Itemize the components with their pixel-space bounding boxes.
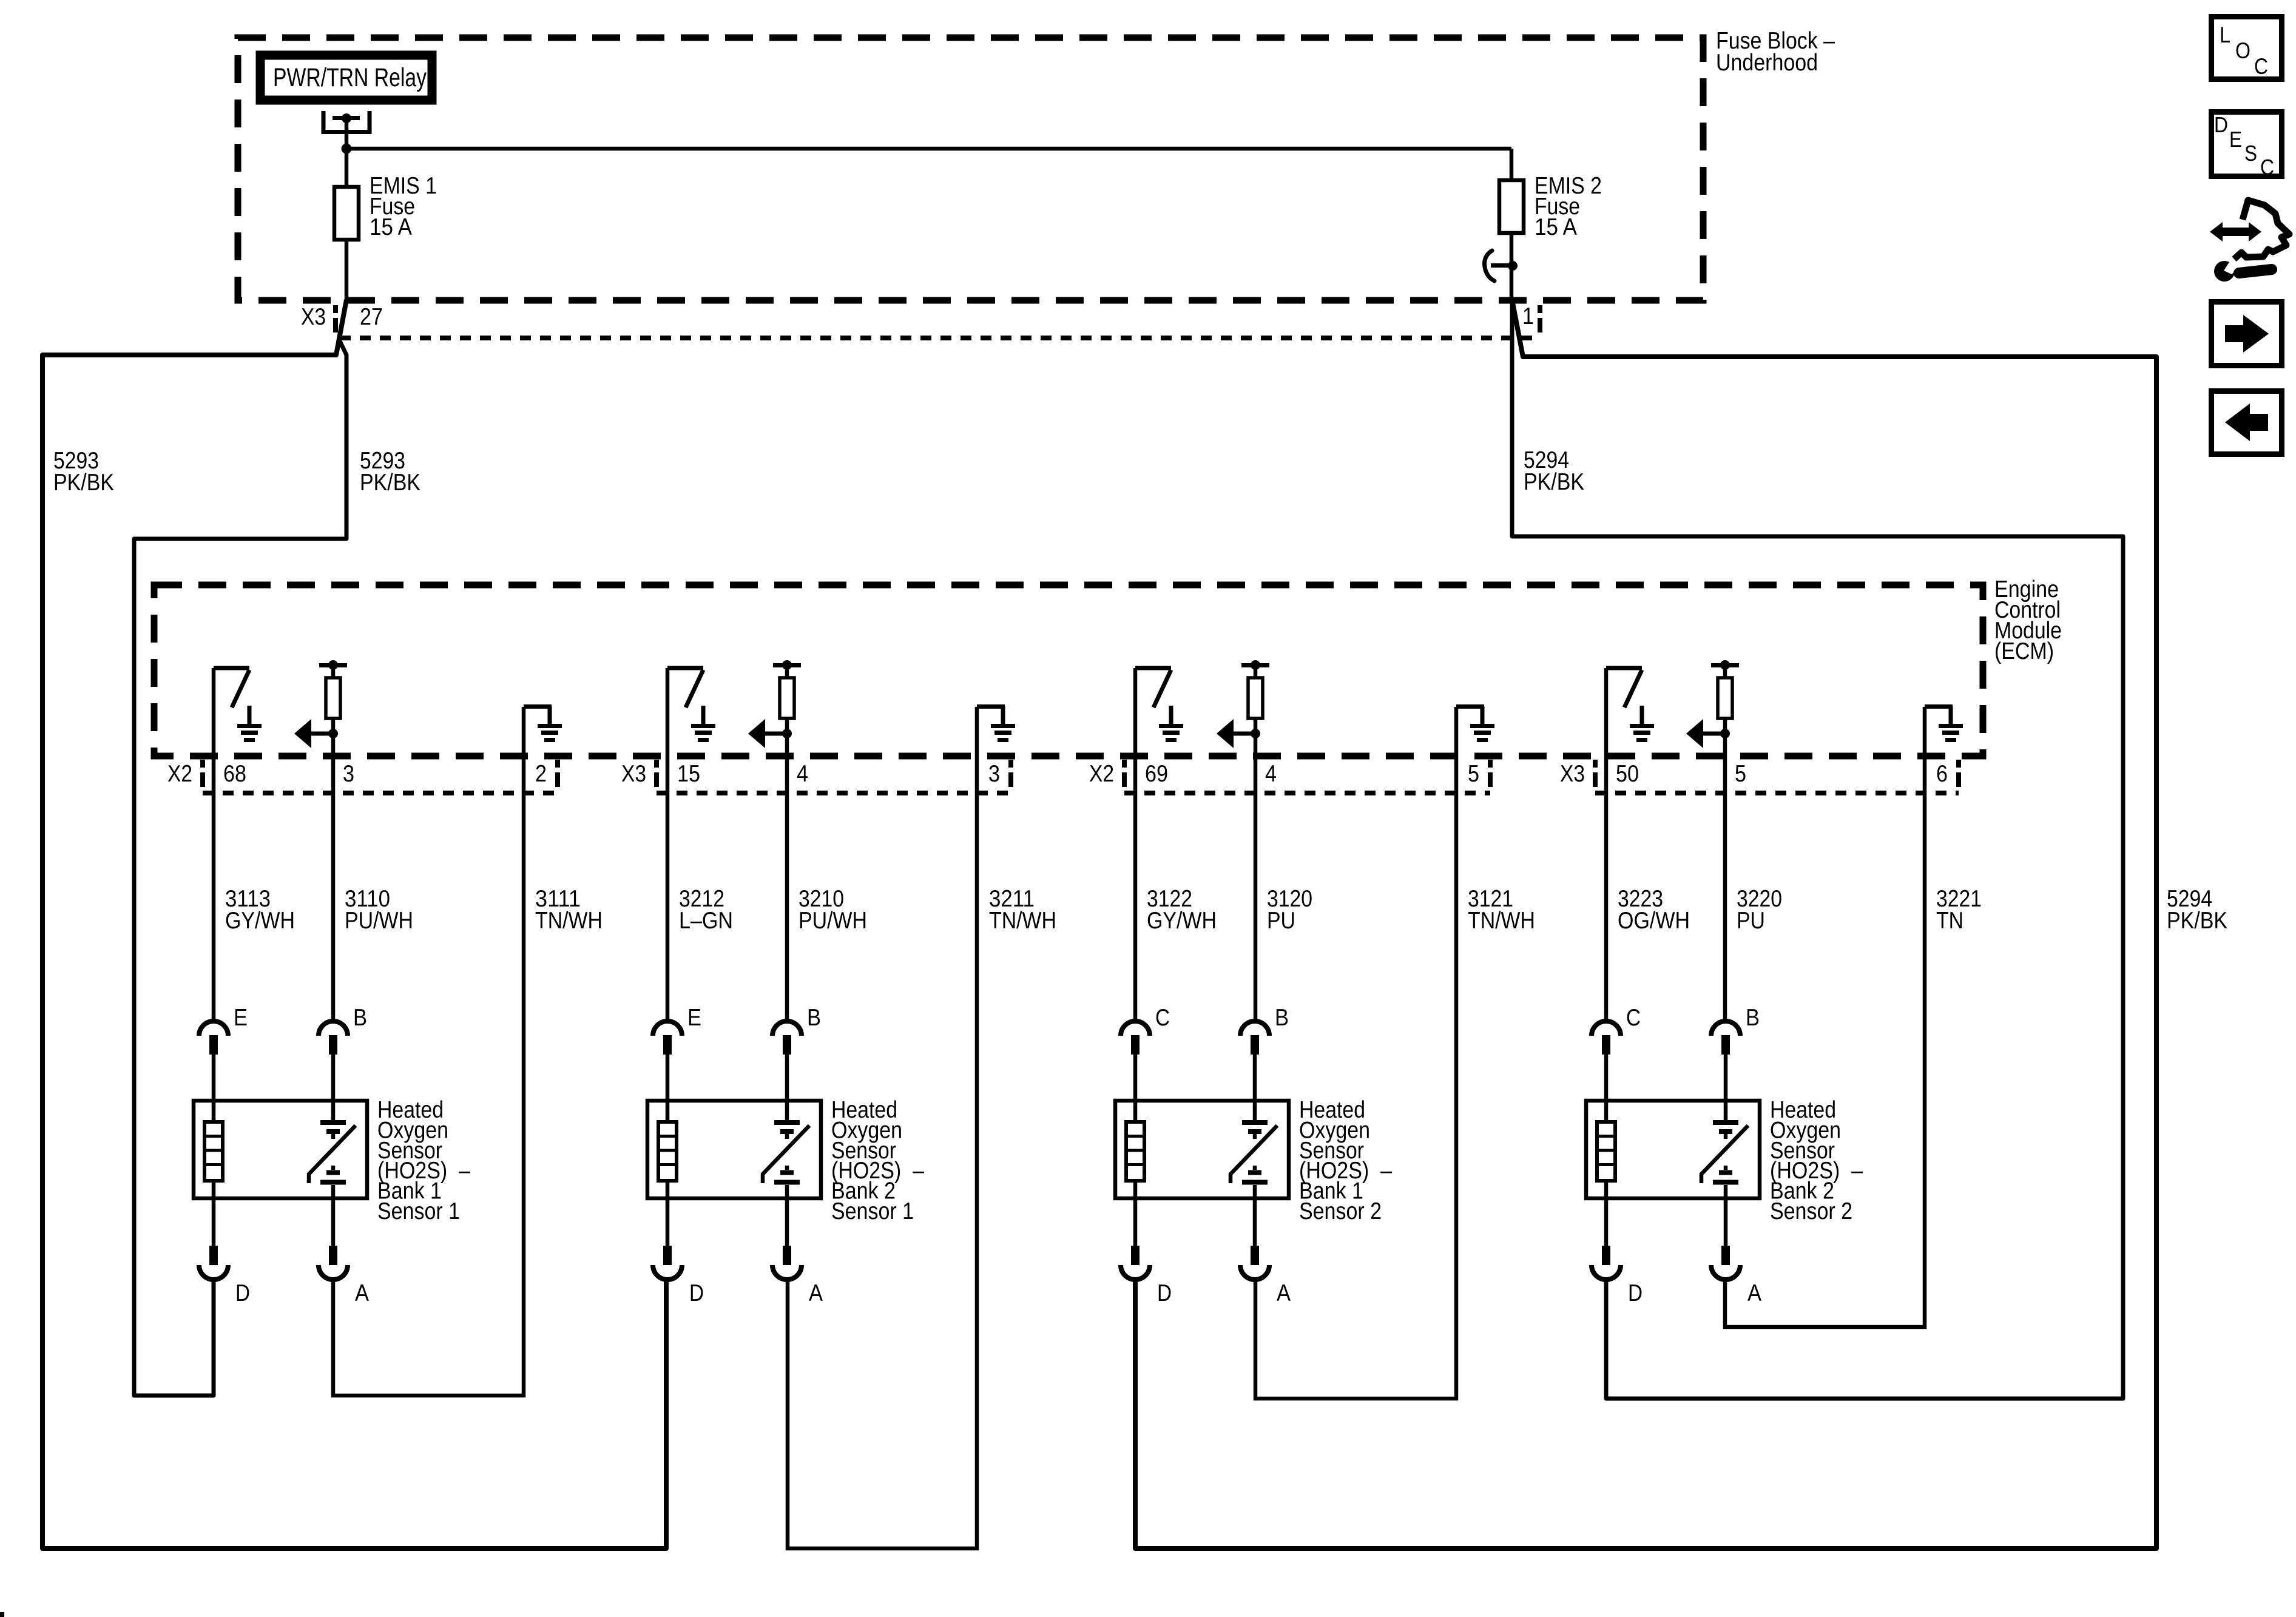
svg-text:Sensor 1: Sensor 1 — [377, 1198, 460, 1224]
svg-text:TN/WH: TN/WH — [535, 908, 603, 934]
svg-text:O: O — [2235, 38, 2250, 63]
svg-text:1: 1 — [1522, 303, 1534, 329]
label pin A (HO2S Bank 2 Sensor 1) — [809, 1280, 823, 1306]
sensor box (HO2S Bank 1 Sensor 1) — [194, 1101, 367, 1198]
label X2 group 3 — [1089, 761, 1114, 787]
label pin A (HO2S Bank 2 Sensor 2) — [1747, 1280, 1761, 1306]
label pin 4 — [797, 761, 808, 787]
ECM connector row X3 group 4 (dotted) — [1595, 791, 1959, 795]
inline connector pin D (HO2S Bank 1 Sensor 1) — [199, 1181, 228, 1280]
svg-text:E: E — [687, 1005, 701, 1031]
ECM connector row X3 group 2 (dotted) — [657, 791, 1011, 795]
label: Heated Oxygen Sensor (HO2S Bank 1 Sensor 2) — [1299, 1097, 1392, 1224]
connector stub left X2 group 3 — [1122, 760, 1127, 787]
wire: EMIS 1 fuse to connector X3-27 — [345, 240, 349, 301]
svg-text:B: B — [807, 1005, 821, 1031]
label: Fuse Block - Underhood — [1716, 28, 1835, 76]
connector stub right group 1 — [555, 760, 560, 787]
ECM low reference ground (pin 2) — [524, 706, 562, 740]
svg-text:PU/WH: PU/WH — [799, 908, 867, 934]
label pin B (HO2S Bank 2 Sensor 1) — [807, 1005, 821, 1031]
svg-text:B: B — [353, 1005, 367, 1031]
fuse EMIS 2 (15 A) — [1499, 180, 1524, 233]
label: Engine Control Module (ECM) — [1994, 576, 2062, 664]
ECM heater driver resistor (pin 4) — [1241, 660, 1269, 1022]
label X2 group 1 — [167, 761, 192, 787]
icon box arrow left — [2212, 391, 2282, 454]
label: wire 3211 TN/WH — [989, 886, 1056, 934]
connector stub left X3 group 2 — [654, 760, 659, 787]
label: wire 3110 PU/WH — [345, 886, 413, 934]
wire: relay output down to EMIS 1 fuse — [345, 149, 349, 187]
ECM low reference ground (pin 3) — [977, 706, 1015, 740]
label X3 group 4 — [1560, 761, 1585, 787]
wire: EMIS 2 feed corner down to fuse — [1510, 149, 1514, 180]
svg-text:TN: TN — [1936, 908, 1963, 934]
svg-text:A: A — [355, 1280, 369, 1306]
label pin E (HO2S Bank 1 Sensor 1) — [234, 1005, 248, 1031]
svg-text:C: C — [1626, 1005, 1641, 1031]
svg-text:PK/BK: PK/BK — [1524, 469, 1584, 495]
svg-text:OG/WH: OG/WH — [1618, 908, 1690, 934]
svg-text:GY/WH: GY/WH — [225, 908, 295, 934]
svg-text:TN/WH: TN/WH — [989, 908, 1056, 934]
fuse EMIS 1 (15 A) — [334, 187, 359, 240]
inline connector pin B (HO2S Bank 1 Sensor 1) — [319, 1021, 348, 1120]
wire 3221 TN: ECM pin 6 to HO2S B2S2 pin A — [1725, 707, 1925, 1327]
ECM heater driver resistor (pin 5) — [1711, 660, 1739, 1022]
heater element (HO2S Bank 2 Sensor 2) — [1597, 1122, 1615, 1181]
label pin D (HO2S Bank 1 Sensor 2) — [1157, 1280, 1172, 1306]
svg-text:L–GN: L–GN — [679, 908, 733, 934]
svg-text:D: D — [1157, 1280, 1172, 1306]
sensor box (HO2S Bank 2 Sensor 1) — [647, 1101, 821, 1198]
sensor box (HO2S Bank 1 Sensor 2) — [1115, 1101, 1289, 1198]
inline connector pin A (HO2S Bank 1 Sensor 2) — [1240, 1185, 1269, 1280]
svg-text:D: D — [235, 1280, 250, 1306]
inline connector pin E (HO2S Bank 1 Sensor 1) — [199, 1021, 228, 1122]
engine control module ECM (dashed box) — [154, 585, 1983, 756]
icon box arrow right — [2212, 302, 2282, 366]
label pin 15 — [677, 761, 700, 787]
sensor box (HO2S Bank 2 Sensor 2) — [1586, 1101, 1760, 1198]
page artifact dot (bottom-left) — [0, 1612, 4, 1617]
label pin 6 — [1936, 761, 1948, 787]
label: EMIS 2 Fuse 15 A — [1535, 173, 1602, 240]
label: wire 3220 PU — [1737, 886, 1782, 934]
label: Heated Oxygen Sensor (HO2S Bank 2 Sensor 1) — [831, 1097, 924, 1224]
inline connector pin E (HO2S Bank 2 Sensor 1) — [653, 1021, 682, 1122]
label pin C (HO2S Bank 2 Sensor 2) — [1626, 1005, 1641, 1031]
ECM heater driver arrow (pin 4) — [748, 719, 792, 748]
label pin B (HO2S Bank 2 Sensor 2) — [1746, 1005, 1760, 1031]
svg-text:E: E — [2229, 127, 2242, 152]
label: Heated Oxygen Sensor (HO2S Bank 2 Sensor 2) — [1770, 1097, 1863, 1224]
ECM signal switch (pin X3-15) — [667, 668, 703, 1022]
svg-text:C: C — [1155, 1005, 1170, 1031]
label: 5293 PK/BK (center) — [360, 448, 420, 496]
label pin 68 — [223, 761, 246, 787]
connector stub left X2 group 1 — [200, 760, 205, 787]
connector stub right (pin 1) — [1538, 305, 1542, 333]
svg-text:(ECM): (ECM) — [1994, 638, 2054, 664]
label pin A (HO2S Bank 1 Sensor 1) — [355, 1280, 369, 1306]
ECM signal switch (pin X3-50) — [1606, 668, 1642, 1022]
label: wire 3120 PU — [1267, 886, 1312, 934]
svg-text:5: 5 — [1735, 761, 1746, 787]
icon box LOC — [2212, 17, 2282, 79]
ECM heater driver resistor (pin 3) — [319, 660, 347, 1022]
label pin 3 — [343, 761, 354, 787]
connector stub left X3 group 4 — [1593, 760, 1598, 787]
svg-text:C: C — [2254, 54, 2268, 79]
svg-text:E: E — [234, 1005, 248, 1031]
svg-text:PWR/TRN Relay: PWR/TRN Relay — [273, 63, 427, 92]
svg-text:PU: PU — [1267, 908, 1295, 934]
svg-text:68: 68 — [223, 761, 246, 787]
svg-text:69: 69 — [1145, 761, 1168, 787]
inline connector pin A (HO2S Bank 1 Sensor 1) — [319, 1185, 348, 1280]
svg-text:3: 3 — [988, 761, 1000, 787]
ECM heater driver arrow (pin 4) — [1217, 719, 1260, 748]
inline connector pin A (HO2S Bank 2 Sensor 1) — [772, 1185, 802, 1280]
sensing cell (HO2S Bank 2 Sensor 2) — [1701, 1122, 1748, 1183]
inline connector pin D (HO2S Bank 2 Sensor 2) — [1592, 1181, 1621, 1280]
svg-text:PU: PU — [1737, 908, 1765, 934]
label: 5294 PK/BK (right) — [2167, 886, 2227, 934]
heater element (HO2S Bank 1 Sensor 2) — [1126, 1122, 1144, 1181]
ECM internal ground (near pin 68) — [237, 706, 262, 740]
svg-text:5: 5 — [1468, 761, 1479, 787]
svg-text:X3: X3 — [621, 761, 646, 787]
ECM signal switch (pin X2-69) — [1135, 668, 1171, 1022]
wire 5294: main run to HO2S B2S2 pin D — [1512, 300, 2123, 1399]
inline connector pin C (HO2S Bank 1 Sensor 2) — [1121, 1021, 1150, 1122]
svg-text:PU/WH: PU/WH — [345, 908, 413, 934]
ECM low reference ground (pin 5) — [1456, 706, 1494, 740]
label pin 4 — [1265, 761, 1277, 787]
fuse block - underhood (dashed box) — [238, 38, 1703, 300]
connector stub right group 3 — [1488, 760, 1493, 787]
relay K: PWR/TRN Relay (bold box) — [260, 55, 432, 100]
wire: EMIS 2 fuse to clip — [1510, 233, 1514, 266]
sensing cell (HO2S Bank 2 Sensor 1) — [763, 1122, 809, 1183]
ECM connector row X2 group 1 (dotted) — [203, 791, 558, 795]
wire 3211 TN/WH: ECM pin 3 to HO2S B2S1 pin A — [788, 707, 977, 1548]
ECM heater driver arrow (pin 5) — [1686, 719, 1730, 748]
ECM heater driver resistor (pin 4) — [773, 660, 801, 1022]
svg-text:2: 2 — [535, 761, 547, 787]
svg-text:15: 15 — [677, 761, 700, 787]
label pin 50 — [1616, 761, 1639, 787]
ECM connector row X2 group 3 (dotted) — [1124, 791, 1490, 795]
label pin 3 — [988, 761, 1000, 787]
label X3 (fuse block connector) — [301, 304, 326, 330]
svg-text:PK/BK: PK/BK — [2167, 908, 2227, 934]
inline connector pin A (HO2S Bank 2 Sensor 2) — [1711, 1185, 1740, 1280]
connector stub left (X3) — [333, 305, 338, 333]
label: wire 3212 L–GN — [679, 886, 733, 934]
label pin 69 — [1145, 761, 1168, 787]
label pin D (HO2S Bank 2 Sensor 1) — [689, 1280, 704, 1306]
svg-text:Sensor 2: Sensor 2 — [1299, 1198, 1382, 1224]
label pin 27 — [360, 304, 383, 330]
svg-text:D: D — [2214, 112, 2228, 137]
label: EMIS 1 Fuse 15 A — [370, 173, 437, 240]
icon box DESC — [2212, 112, 2282, 180]
icon: diagnostic wrench with double arrow — [2210, 200, 2289, 282]
label X3 group 2 — [621, 761, 646, 787]
svg-text:PK/BK: PK/BK — [360, 470, 420, 496]
svg-text:Sensor 2: Sensor 2 — [1770, 1198, 1852, 1224]
label: 5294 PK/BK (center) — [1524, 447, 1584, 495]
svg-text:Underhood: Underhood — [1716, 50, 1818, 76]
svg-text:3: 3 — [343, 761, 354, 787]
svg-text:X2: X2 — [167, 761, 192, 787]
svg-text:TN/WH: TN/WH — [1468, 908, 1535, 934]
svg-text:L: L — [2220, 22, 2230, 47]
wire 5293: connector slant + left branch to HO2S B2S1 pin D — [42, 300, 666, 1548]
svg-text:D: D — [689, 1280, 704, 1306]
label pin 5 — [1468, 761, 1479, 787]
svg-text:GY/WH: GY/WH — [1147, 908, 1217, 934]
svg-text:4: 4 — [797, 761, 808, 787]
svg-text:50: 50 — [1616, 761, 1639, 787]
svg-text:X3: X3 — [1560, 761, 1585, 787]
label: wire 3223 OG/WH — [1618, 886, 1690, 934]
svg-text:27: 27 — [360, 304, 383, 330]
connector stub right group 2 — [1008, 760, 1013, 787]
label: wire 3221 TN — [1936, 886, 1982, 934]
junction node (relay output) — [342, 144, 352, 154]
heater element (HO2S Bank 2 Sensor 1) — [658, 1122, 677, 1181]
svg-text:15 A: 15 A — [370, 214, 412, 240]
label pin D (HO2S Bank 1 Sensor 1) — [235, 1280, 250, 1306]
connector stub right group 4 — [1956, 760, 1961, 787]
svg-text:S: S — [2244, 141, 2257, 166]
svg-text:C: C — [2260, 155, 2274, 180]
label: wire 3122 GY/WH — [1147, 886, 1217, 934]
wire 3111 TN/WH: ECM pin 2 to HO2S B1S1 pin A — [333, 707, 524, 1396]
inline connector pin D (HO2S Bank 1 Sensor 2) — [1121, 1181, 1150, 1280]
inline connector pin B (HO2S Bank 1 Sensor 2) — [1240, 1021, 1269, 1120]
label: Heated Oxygen Sensor (HO2S Bank 1 Sensor 1) — [377, 1097, 470, 1224]
label pin 2 — [535, 761, 547, 787]
svg-text:X2: X2 — [1089, 761, 1114, 787]
ECM internal ground (near pin 50) — [1630, 706, 1654, 740]
wire 3121 TN/WH: ECM pin 5 to HO2S B1S2 pin A — [1255, 707, 1456, 1399]
label: wire 3111 TN/WH — [535, 886, 603, 934]
label pin B (HO2S Bank 1 Sensor 2) — [1275, 1005, 1289, 1031]
label pin B (HO2S Bank 1 Sensor 1) — [353, 1005, 367, 1031]
inline connector pin B (HO2S Bank 2 Sensor 1) — [772, 1021, 802, 1120]
connector row X3/1 (fuse block, dotted) — [340, 336, 1536, 340]
label: wire 3121 TN/WH — [1468, 886, 1535, 934]
label: 5293 PK/BK (left) — [53, 448, 114, 496]
fuse clip terminal (EMIS 2) — [1485, 251, 1518, 281]
svg-text:A: A — [1277, 1280, 1291, 1306]
label pin A (HO2S Bank 1 Sensor 2) — [1277, 1280, 1291, 1306]
svg-text:B: B — [1275, 1005, 1289, 1031]
inline connector pin C (HO2S Bank 2 Sensor 2) — [1592, 1021, 1621, 1122]
label: wire 3113 GY/WH — [225, 886, 295, 934]
ECM low reference ground (pin 6) — [1925, 706, 1963, 740]
wire 5294: connector slant + right branch to HO2S B1S2 pin D — [1135, 300, 2156, 1548]
ECM signal switch (pin X2-68) — [214, 668, 249, 1022]
svg-text:4: 4 — [1265, 761, 1277, 787]
wire: relay output to EMIS 2 fuse — [346, 147, 1511, 151]
svg-text:D: D — [1628, 1280, 1643, 1306]
label: wire 3210 PU/WH — [799, 886, 867, 934]
ECM internal ground (near pin 15) — [691, 706, 715, 740]
heater element (HO2S Bank 1 Sensor 1) — [204, 1122, 223, 1181]
inline connector pin B (HO2S Bank 2 Sensor 2) — [1711, 1021, 1740, 1120]
sensing cell (HO2S Bank 1 Sensor 1) — [309, 1122, 356, 1183]
svg-text:15 A: 15 A — [1535, 214, 1577, 240]
ECM heater driver arrow (pin 3) — [294, 719, 338, 748]
svg-text:A: A — [1747, 1280, 1761, 1306]
svg-text:6: 6 — [1936, 761, 1948, 787]
label pin 1 — [1522, 303, 1534, 329]
sensing cell (HO2S Bank 1 Sensor 2) — [1231, 1122, 1277, 1183]
wire: EMIS 2 clip to connector 1 — [1510, 266, 1514, 301]
relay output terminal bracket — [323, 111, 370, 149]
svg-text:Sensor 1: Sensor 1 — [831, 1198, 914, 1224]
label pin E (HO2S Bank 2 Sensor 1) — [687, 1005, 701, 1031]
svg-text:A: A — [809, 1280, 823, 1306]
ECM internal ground (near pin 69) — [1159, 706, 1183, 740]
svg-text:B: B — [1746, 1005, 1760, 1031]
inline connector pin D (HO2S Bank 2 Sensor 1) — [653, 1181, 682, 1280]
label pin D (HO2S Bank 2 Sensor 2) — [1628, 1280, 1643, 1306]
svg-text:PK/BK: PK/BK — [53, 470, 114, 496]
label pin 5 — [1735, 761, 1746, 787]
wire 5293: main run to HO2S B1S1 pin D — [134, 341, 346, 1396]
svg-text:X3: X3 — [301, 304, 326, 330]
label pin C (HO2S Bank 1 Sensor 2) — [1155, 1005, 1170, 1031]
